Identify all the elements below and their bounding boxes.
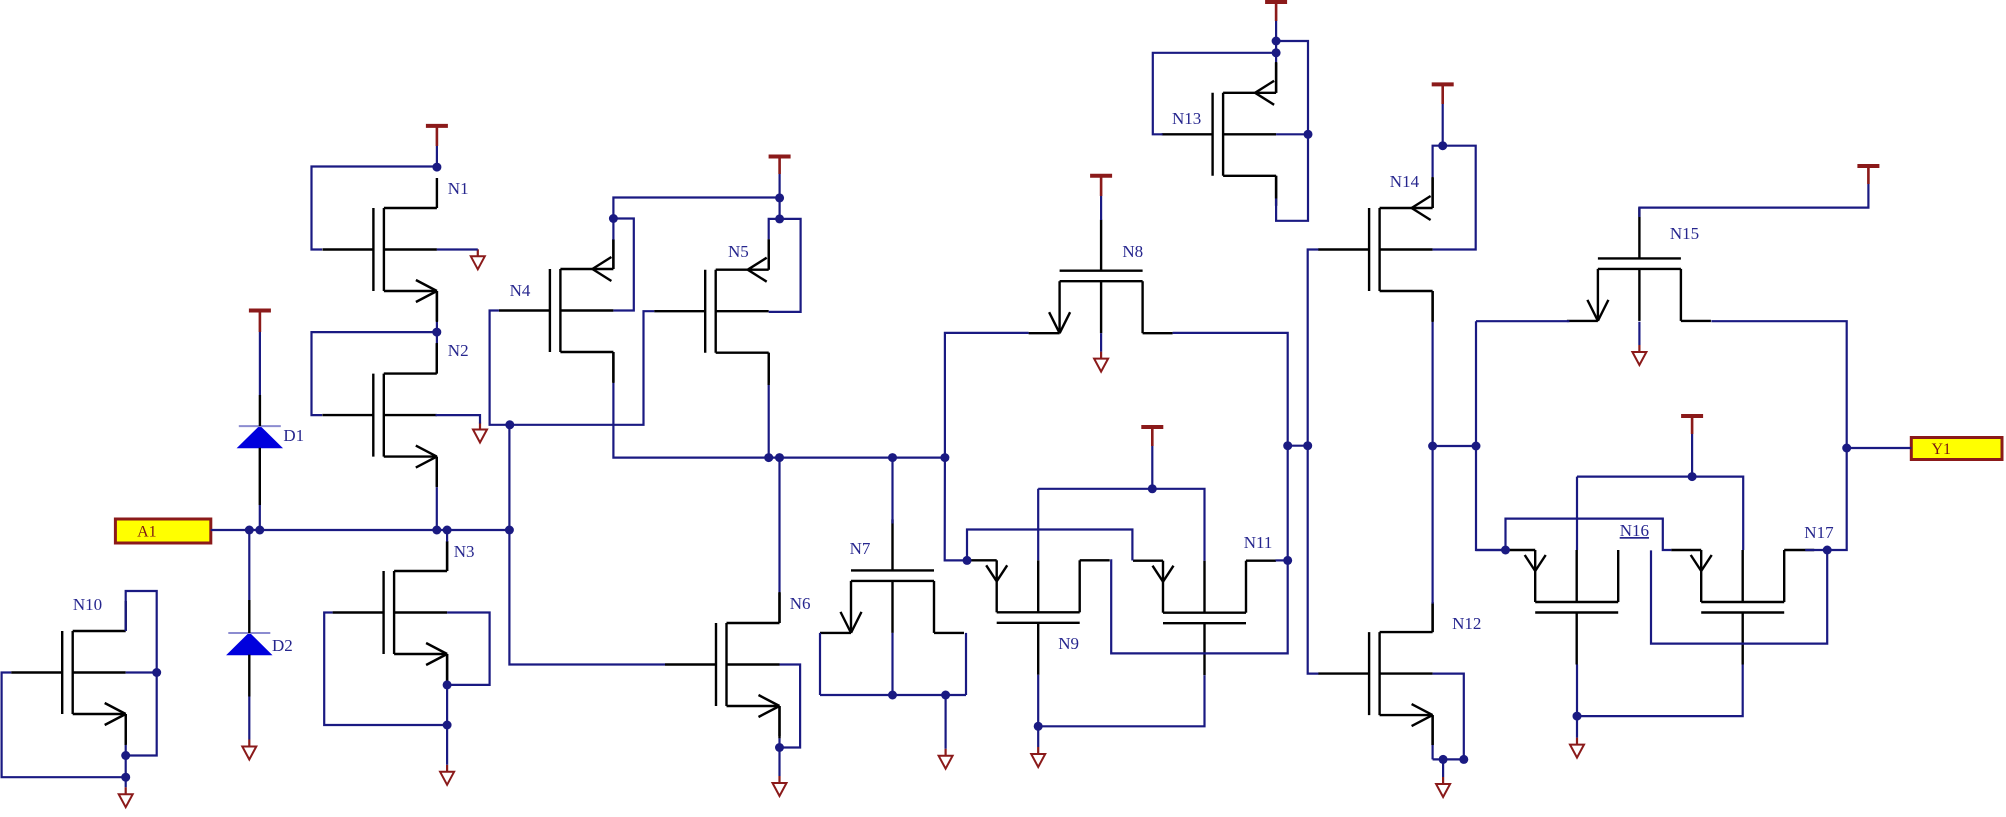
wire N9 gate net [1038,675,1204,727]
svg-text:N16: N16 [1620,521,1649,540]
wire D2 anode pin [248,655,250,697]
svg-text:N10: N10 [73,595,102,614]
wire col1476 [1476,321,1506,550]
junction N5 source node [775,214,784,223]
transistor N10 [11,601,126,744]
wire N15 gate to power [1639,184,1868,217]
wire jog 1288-1308 [1288,445,1308,447]
junction N7 ground junction [941,691,950,700]
junction N14 VDD node [1438,141,1447,150]
wire N3 drain to bus [446,530,448,542]
transistor N17 [1671,550,1814,665]
wire N3 gate loop [324,613,447,726]
wire N17 right loop [1651,550,1827,644]
junction N9 gate ground junction [1034,722,1043,731]
wire N6 drain pin [778,592,780,623]
wire net5 bus [613,383,945,458]
ground symbol GND-N2 [473,423,487,443]
wire A1 bus to N6 gate [509,530,665,665]
transistor N13 [1162,63,1277,206]
wire N10 drain loop [126,591,157,756]
junction N1 drain VDD node [432,163,441,172]
svg-text:N7: N7 [850,539,871,558]
transistor N14 [1318,178,1433,321]
junction A1-D1 junction [255,526,264,535]
wire N16-N17 power stem [1691,434,1693,477]
wire bulk bus top [1577,477,1743,550]
svg-text:N9: N9 [1058,634,1079,653]
wire N7 bulk down [891,633,893,695]
wire D1 cathode wire [259,332,261,395]
wire bus519 [1506,519,1672,550]
wire N12 drain pin [1431,604,1433,632]
wire N7 bottom rail [820,694,966,696]
wire N10 source to ground [125,745,127,787]
wire N5 gate net [510,311,654,425]
power symbol VDD-N16-N17 [1681,416,1703,434]
wire N12 source node [1431,745,1433,759]
wire N6 source to ground [778,748,780,777]
junction N14 drain junction [1428,442,1437,451]
wire Y1 node down [1827,448,1847,550]
transistor N12 [1318,602,1433,745]
svg-text:A1: A1 [137,524,157,541]
wire N7 left lead down [819,633,821,695]
junction A1 bus junction [505,526,514,535]
wire D2 cathode pin [248,600,250,633]
wire N4 gate net [490,311,510,425]
wire gate net to A1 bus [508,425,510,530]
wire N6 source node [778,738,780,747]
svg-text:D2: D2 [272,636,293,655]
junction N6 drain junction [775,453,784,462]
wire N9-N11 power stem [1151,446,1153,489]
wire N1 bulk to ground [437,248,478,250]
wire N1 gate-drain loop [312,167,437,250]
ground symbol GND-N12 [1436,777,1450,797]
junction A1-N2 junction [432,526,441,535]
wire N14 bulk loop [1433,146,1476,250]
wire D1 anode to bus [259,505,261,530]
junction N4-N5 VDD node [775,193,784,202]
transistor N16 [1505,550,1618,665]
wire N13 right loop [1276,41,1308,221]
wire N1-N2 node [436,322,438,343]
wire N10 gate loop [2,673,126,778]
transistor N6 [665,593,780,736]
port Y1 [1911,438,2002,460]
wire N13 source wire [1275,53,1277,62]
junction N3 gate junction [443,721,452,730]
junction N13 source node [1272,48,1281,57]
junction A1-D2 junction [245,526,254,535]
wire N14 gate net [1308,250,1319,446]
svg-text:N5: N5 [728,242,749,261]
power symbol VDD-N9-N11 [1141,427,1163,446]
svg-text:D1: D1 [283,426,304,445]
wire N5 source wire [769,219,780,239]
wire D1 anode pin [259,448,261,505]
junction N10 source junction [121,751,130,760]
ground symbol GND-N16-N17 [1570,738,1584,758]
wire N4 source pin wire [612,219,614,240]
wire N13 drain pin [1275,176,1277,199]
wire N12 bulk loop [1433,674,1464,760]
wire col1288 up [1287,446,1289,561]
wire N4 bulk loop [613,219,633,311]
ground symbol GND-N8 [1094,352,1108,372]
ground symbol GND-N15 [1632,345,1646,365]
wire N9 gate ground stub [1037,726,1039,747]
svg-text:N2: N2 [448,341,469,360]
transistor N2 [322,344,437,487]
wire N3 drain pin [446,542,448,571]
wire N16 left dot wire [1476,549,1506,551]
ground symbol GND-N9-N11 [1031,747,1045,767]
wire N16 ground stub [1576,716,1578,738]
wire N2 bulk to ground [436,415,481,423]
wire N4 source pin [612,240,614,269]
wire N14 drain to N12 [1431,446,1433,604]
junction N12 bulk junction [1459,755,1468,764]
svg-text:N12: N12 [1452,614,1481,633]
wire N6 bulk loop [780,665,801,748]
wire N17 right dot wire [1805,549,1827,551]
junction N13 VDD node [1272,37,1281,46]
wire N7 ground stub [944,695,946,749]
power symbol VDD-N4-N5 [769,157,791,175]
wire N4-N5 power stem [778,174,780,219]
wire N15 right wire [1711,321,1846,448]
junction N7 bulk junction [888,691,897,700]
diode D1 [238,426,282,448]
wire N10 source pin [124,714,126,745]
wire N2 source to bus [436,487,438,530]
wire N15 bulk to ground [1638,322,1640,345]
svg-text:N1: N1 [448,179,469,198]
wire N5 bulk loop [769,219,801,312]
junction N9 left junction [963,556,972,565]
wire N6 drain to bus [778,458,780,592]
wire N14 source pin [1431,177,1433,208]
junction N16-N17 VDD junction [1688,472,1697,481]
wire N12 source pin [1431,715,1433,745]
transistor N5 [654,240,769,383]
wire N14 drain chain [1431,322,1433,446]
junction net5 junction [940,453,949,462]
wire N8 right wire [1173,333,1288,446]
wire VDD bus N9-N11 [1038,489,1204,561]
wire N13 power stem [1275,21,1277,53]
wire Y1 wire [1847,447,1912,449]
transistor N8 [1029,220,1173,334]
svg-text:Y1: Y1 [1931,441,1951,458]
junction N11 right junction [1283,556,1292,565]
svg-text:N6: N6 [790,594,811,613]
wire N14 power stem [1442,104,1444,146]
port A1 [115,519,210,543]
wire N8 bulk to ground [1100,333,1102,351]
power symbol VDD-D1 [249,311,271,333]
wire jog 1433-1476 [1433,445,1476,447]
wire N1 source pin [436,291,438,322]
wire N13 source pin [1275,62,1277,93]
junction N13 bulk node [1304,130,1313,139]
ground symbol GND-N3 [440,765,454,785]
transistor N9 [967,560,1110,675]
wire N5 drain pin [768,353,770,385]
svg-text:N3: N3 [454,542,475,561]
power symbol VDD-N8 [1090,176,1112,196]
junction col1476 junction [1472,442,1481,451]
junction N7 gate junction [888,453,897,462]
transistor N3 [333,541,448,684]
svg-text:N15: N15 [1670,224,1699,243]
transistor N7 [820,519,964,633]
wire N2 source pin [436,457,438,488]
svg-text:N14: N14 [1390,172,1420,191]
wire N7 gate wire [891,458,893,524]
wire N2 gate-drain loop [312,332,437,415]
junction gate net junction [505,420,514,429]
wire N3 bulk loop [447,613,490,685]
wire N8 power stem [1100,196,1102,220]
wire N4 drain pin [612,352,614,383]
transistor N11 [1133,561,1276,676]
wire N1 power stem [436,146,438,167]
junction A1-N3 junction [443,526,452,535]
junction jog junction b [1303,441,1312,450]
ground symbol GND-N10 [119,787,133,807]
wire N15 left wire [1476,320,1569,322]
wire N5 source pin [768,239,770,270]
wire VDD bus N4-N5 [613,198,779,219]
transistor N1 [322,178,437,321]
transistor N4 [499,239,614,382]
power symbol VDD-N14 [1432,84,1454,104]
wire N7 right lead down [965,633,967,695]
junction jog junction a [1283,441,1292,450]
wire N9 bulk up [1037,489,1039,561]
junction N12 ground junction [1439,755,1448,764]
wire N14 drain pin [1431,291,1433,322]
wire N16-N17 bulk bus [1576,477,1578,550]
wire N3 source pin [446,654,448,685]
power symbol VDD-N13 [1265,2,1287,21]
diode D2 [227,633,271,655]
junction N17 right junction [1823,546,1832,555]
ground symbol GND-N7 [939,749,953,769]
wire N12 ground stub [1442,759,1444,777]
svg-text:N4: N4 [510,281,531,300]
wire N14 source wire [1433,146,1443,177]
ground symbol GND-N6 [773,776,787,796]
ground symbol GND-N1 [471,249,485,269]
wire D2 cathode wire [248,530,250,600]
wire N10 bulk wire [126,671,157,673]
svg-text:N11: N11 [1244,533,1273,552]
svg-text:N8: N8 [1122,242,1143,261]
junction N3 bulk junction [443,680,452,689]
wire N2 drain pin [436,343,438,374]
junction N5 drain junction [764,453,773,462]
power symbol VDD-N1 [426,126,448,146]
junction N6 source junction [775,743,784,752]
wire A1 bus [211,529,510,531]
power symbol VDD-N15 [1857,166,1879,184]
wire N6 source pin [778,706,780,738]
wire col944 down [945,458,967,561]
wire N11 right pin wire [1276,559,1288,561]
wire D1 cathode pin [259,395,261,426]
junction Y1 junction [1842,444,1851,453]
svg-text:N13: N13 [1172,109,1201,128]
junction N16 left junction [1501,546,1510,555]
junction N4 source node [609,214,618,223]
wire N16 gate net [1577,665,1743,717]
svg-text:N17: N17 [1804,523,1834,542]
wire N3 source to ground [446,685,448,765]
junction N9-N11 VDD junction [1148,484,1157,493]
ground symbol GND-D2 [242,740,256,760]
wire N13 gate loop [1153,53,1276,135]
wire N9 right link [1110,560,1288,653]
wire N12 gate net [1308,446,1319,674]
junction N10 bulk junction [152,668,161,677]
wire D2 anode to ground [248,697,250,740]
wire N5 drain to bus [768,385,770,458]
transistor N15 [1567,207,1711,321]
junction N1-N2 node [432,328,441,337]
wire N9-N11 left link [967,530,1132,561]
wire N13 bulk wire [1276,133,1308,135]
junction N10 gate junction [121,773,130,782]
junction N16 gate ground junction [1573,712,1582,721]
wire N8 left wire [945,333,1029,458]
